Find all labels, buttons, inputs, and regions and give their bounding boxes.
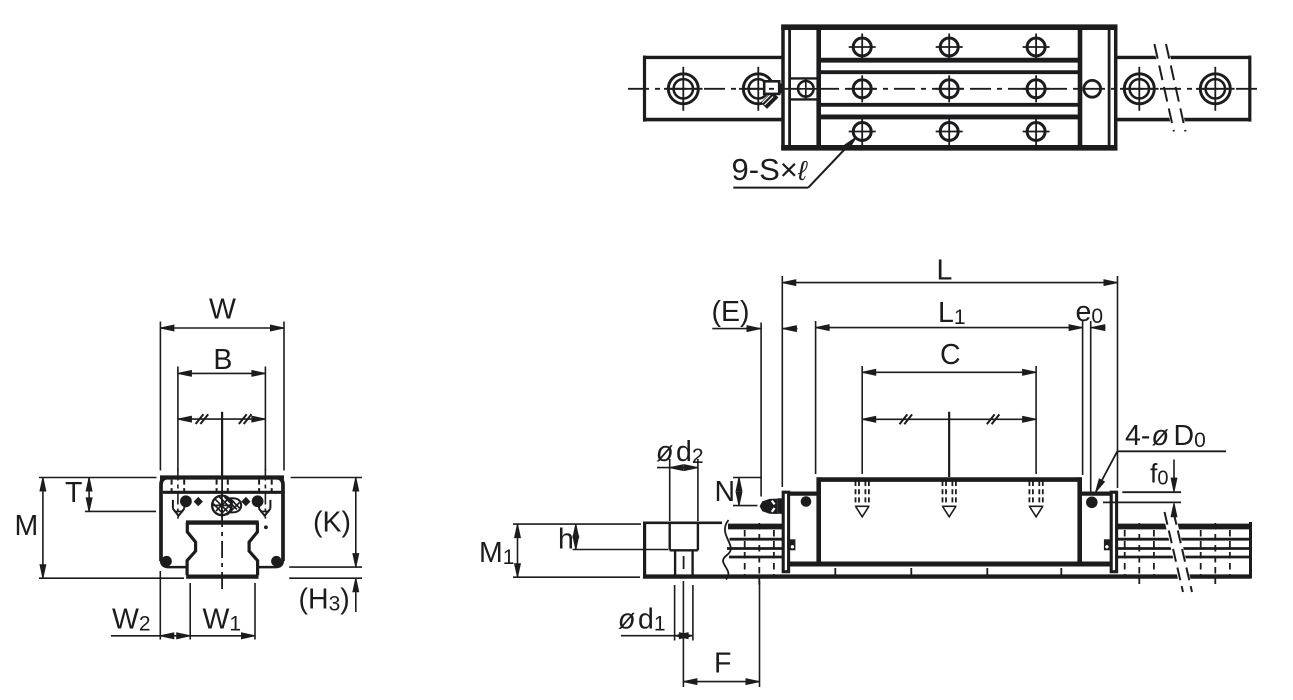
- dim L: [782, 276, 1117, 488]
- rail bottom edge (section): [186, 574, 258, 578]
- left end-plate grease boss box: [791, 78, 817, 100]
- grease nipple (top view): [761, 81, 784, 109]
- rail cross-section profile: [187, 522, 258, 575]
- 9 tapped holes S (top view), 3 columns x 3 rows: [853, 38, 1045, 141]
- rail break (top view): [1153, 44, 1187, 132]
- dim W: [160, 322, 284, 471]
- block top edge (thick): [160, 475, 284, 479]
- dim B: [178, 367, 266, 471]
- rail groove lines (side view): [727, 539, 1251, 557]
- rail right end: [1249, 522, 1252, 579]
- end seals (side view): [783, 492, 788, 572]
- rail top edge band (side view): [728, 524, 783, 530]
- svg-text:4-: 4-: [1125, 420, 1150, 452]
- right tapped hole (section): [252, 469, 272, 519]
- svg-text:(H3): (H3): [299, 584, 350, 616]
- tapped hole 3 (side view, hidden): [1029, 481, 1042, 517]
- svg-text:ø: ø: [656, 436, 673, 468]
- dim equal-pitch line (side): [862, 418, 1036, 420]
- rail bolt hole section: counterbore d2: [670, 524, 698, 575]
- hidden bolt hole centerlines under block: [835, 568, 1061, 575]
- dim N: [733, 478, 762, 506]
- dim (H3): [289, 578, 362, 612]
- dim h: [573, 549, 669, 551]
- end plate / body boundaries (top view): [816, 27, 821, 148]
- vertical centerline (section): [221, 412, 223, 478]
- block cross-section outline: [161, 478, 283, 562]
- rail centerline (top view): [628, 88, 1263, 90]
- rail break (side view): [1163, 512, 1194, 592]
- svg-text:h: h: [558, 524, 574, 556]
- svg-text:F: F: [714, 647, 731, 679]
- svg-text:M: M: [15, 510, 39, 542]
- rail bolt hole 1 (top view): [664, 67, 703, 111]
- rail bolt hole 3 (top view): [1120, 67, 1159, 111]
- end seal lines (top view): [788, 30, 791, 145]
- svg-text:(K): (K): [313, 507, 351, 539]
- svg-text:N: N: [715, 476, 736, 508]
- LM block body (side view): [783, 477, 1117, 566]
- dim phi-d2: [657, 459, 698, 521]
- rail bolt hole 4 (top view): [1196, 67, 1235, 111]
- seal clamp tabs: [789, 539, 795, 550]
- left tapped hole (section): [172, 469, 192, 519]
- dim phi-d1: [621, 585, 693, 641]
- end plates top edges (side view): [783, 492, 818, 496]
- dim F: [683, 581, 759, 687]
- svg-text:9-S×ℓ: 9-S×ℓ: [732, 152, 808, 187]
- rail side view: left sectioned end: [643, 522, 722, 579]
- label 9-S×ℓ: [732, 135, 859, 187]
- dim M1: [513, 524, 641, 577]
- wavy partial break line: [723, 520, 731, 580]
- dim L1: [816, 321, 1083, 475]
- rail (top view, plan): [643, 56, 1251, 122]
- rail bolt hole 2 (top view): [739, 67, 778, 111]
- LM block (top view) outer rect: [781, 25, 1117, 151]
- dim equal-pitch line (section): [178, 418, 266, 420]
- rail top edge (section): [186, 520, 259, 524]
- svg-text:L: L: [937, 254, 953, 286]
- tapped hole 1 (side view, hidden): [856, 481, 869, 517]
- tapped hole 2 (side view, hidden): [943, 481, 956, 517]
- block body horizontal lines (top view): [821, 60, 1079, 117]
- end plate screw holes D0: [801, 496, 812, 507]
- block inner top line: [163, 491, 281, 494]
- dims W2 W1: [111, 571, 255, 640]
- rail bottom edge (side view): [643, 574, 1251, 578]
- svg-text:ø: ø: [618, 604, 635, 636]
- svg-text:B: B: [213, 344, 232, 376]
- dim M: [39, 478, 184, 579]
- svg-text:C: C: [940, 339, 961, 371]
- svg-text:W: W: [209, 294, 236, 326]
- dim (K): [289, 478, 362, 568]
- svg-text:(E): (E): [712, 296, 750, 328]
- grease nipple (side view): [760, 498, 783, 514]
- retainer diamonds: [194, 497, 203, 506]
- hidden bolt hole lines, left visible portion: [745, 523, 774, 586]
- corner relief dots: [161, 556, 172, 567]
- grease nipple (section): [211, 480, 241, 518]
- svg-text:ø: ø: [1152, 420, 1169, 452]
- small dot right of rail: [264, 525, 268, 529]
- right end-plate grease port circle: [1084, 80, 1101, 97]
- dim T: [85, 478, 156, 512]
- dim C: [862, 366, 1036, 474]
- svg-text:T: T: [65, 477, 82, 509]
- hidden bolt holes, right visible portion: [1125, 523, 1230, 584]
